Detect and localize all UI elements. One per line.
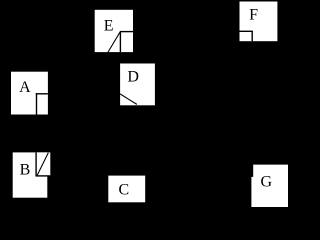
wire B notch horizontal: [36, 175, 51, 177]
wire E notch vertical: [119, 32, 121, 52]
node F: [240, 2, 278, 42]
node G: [251, 165, 288, 207]
wire D diagonal: [120, 94, 137, 105]
svg-text:B: B: [20, 161, 31, 178]
svg-text:F: F: [249, 7, 258, 24]
svg-text:D: D: [127, 68, 139, 85]
wire F notch horizontal: [240, 30, 253, 32]
wire A notch vertical: [36, 93, 38, 114]
wire E diagonal: [108, 32, 120, 52]
svg-text:A: A: [19, 79, 31, 96]
wire F notch vertical: [251, 31, 253, 41]
svg-text:E: E: [104, 17, 114, 34]
wire E notch horizontal: [120, 31, 133, 33]
node A: [11, 72, 48, 115]
node C: [108, 176, 145, 203]
svg-text:C: C: [119, 181, 130, 198]
node E: [95, 10, 133, 52]
wire B notch vertical: [35, 152, 37, 176]
svg-text:G: G: [261, 173, 273, 190]
node B: [13, 152, 51, 197]
wire A notch horizontal: [36, 93, 48, 95]
wire B diagonal: [37, 153, 48, 176]
node D: [120, 64, 155, 106]
